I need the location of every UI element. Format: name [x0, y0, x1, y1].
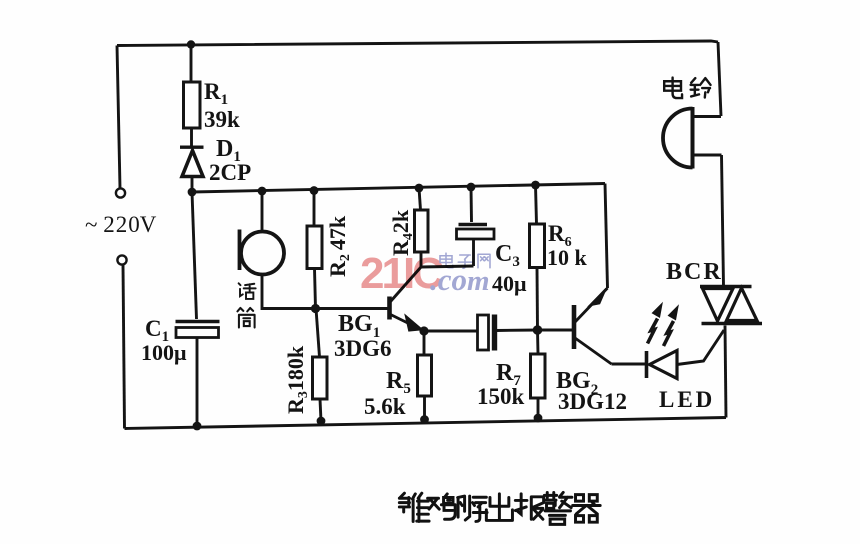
wire lower terminal to bottom rail	[123, 265, 125, 429]
wire top rail	[117, 41, 718, 46]
resistor R7 150k	[531, 330, 546, 418]
wire BG2 base	[538, 329, 573, 332]
node BG1 emitter junction	[419, 326, 428, 335]
wire bell to BCR	[722, 155, 724, 286]
node D1 / rail2	[188, 188, 197, 197]
label 话筒	[237, 283, 255, 327]
watermark 21IC.com 电子网	[360, 249, 490, 298]
svg-text:R1: R1	[204, 79, 228, 108]
node cap/R6/R7/BG2-base junction	[533, 325, 543, 335]
LED light arrow 1	[648, 319, 658, 344]
wire rail2 corner down to BG2 collector	[605, 184, 608, 289]
wire mic bottom to base node	[262, 275, 316, 309]
svg-text:100μ: 100μ	[141, 340, 187, 365]
transistor BG2 3DG12	[574, 288, 612, 364]
wire BCR bottom to bottom rail	[725, 326, 726, 418]
svg-text:5.6k: 5.6k	[364, 394, 406, 419]
electric bell	[663, 107, 722, 169]
resistor R2 47k	[307, 191, 322, 309]
LED	[647, 330, 725, 379]
wire rail2 (after diode)	[192, 184, 605, 193]
resistor R4 2k	[415, 188, 429, 267]
terminal lower of ~220V	[117, 255, 126, 264]
svg-text:3DG12: 3DG12	[558, 389, 627, 414]
terminal upper of ~220V	[116, 188, 125, 197]
node R5 bottom rail	[420, 415, 429, 424]
node mic top	[258, 187, 267, 196]
svg-text:3DG6: 3DG6	[334, 336, 392, 361]
resistor R1	[184, 45, 201, 146]
svg-text:BCR: BCR	[666, 259, 723, 285]
capacitor C2 coupling	[424, 315, 538, 351]
LED light arrow 2	[664, 321, 674, 346]
svg-text:LED: LED	[659, 387, 715, 412]
svg-text:R3180k: R3180k	[283, 345, 311, 414]
microphone 话筒	[240, 230, 285, 275]
svg-text:R247k: R247k	[325, 215, 353, 277]
node base of BG1	[311, 304, 320, 313]
node R7 bottom rail	[534, 414, 543, 423]
node R6 top	[531, 181, 540, 190]
resistor R6 10k	[530, 185, 545, 330]
wire right rail top to bell	[718, 42, 721, 116]
wire mic top	[261, 191, 264, 231]
caption 雏鸡孵出报警器	[399, 492, 600, 524]
svg-text:40μ: 40μ	[492, 271, 527, 296]
svg-text:C3: C3	[495, 241, 520, 270]
triac BCR	[700, 287, 762, 324]
svg-text:R5: R5	[386, 368, 411, 397]
wire BG2 lower lead to LED	[612, 363, 647, 366]
wire R4 bottom to C3 bottom	[421, 266, 474, 267]
svg-text:.com: .com	[430, 262, 490, 297]
svg-text:150k: 150k	[477, 384, 525, 409]
diode D1 2CP	[180, 147, 204, 192]
svg-text:2CP: 2CP	[209, 160, 251, 185]
wire BG1 base	[316, 307, 388, 310]
node R4 top	[415, 184, 424, 193]
wire left side down to upper terminal	[117, 46, 120, 189]
node C1 bottom rail	[193, 422, 202, 431]
capacitor C3 40u	[457, 187, 495, 266]
wire C1 top	[192, 192, 197, 319]
transistor BG1 3DG6	[390, 267, 423, 331]
node top rail to R1	[187, 40, 195, 48]
svg-text:39k: 39k	[204, 107, 240, 132]
svg-text:~ 220V: ~ 220V	[85, 212, 157, 237]
node C3 top	[467, 183, 476, 192]
capacitor C1 100u	[176, 322, 220, 427]
resistor R3 180k	[313, 309, 328, 422]
svg-text:10 k: 10 k	[547, 245, 588, 270]
wire bottom rail	[125, 418, 727, 429]
label 电铃	[664, 78, 710, 98]
node R2 top	[310, 186, 319, 195]
node R3 bottom rail	[317, 417, 326, 426]
resistor R5 5.6k	[418, 331, 432, 420]
